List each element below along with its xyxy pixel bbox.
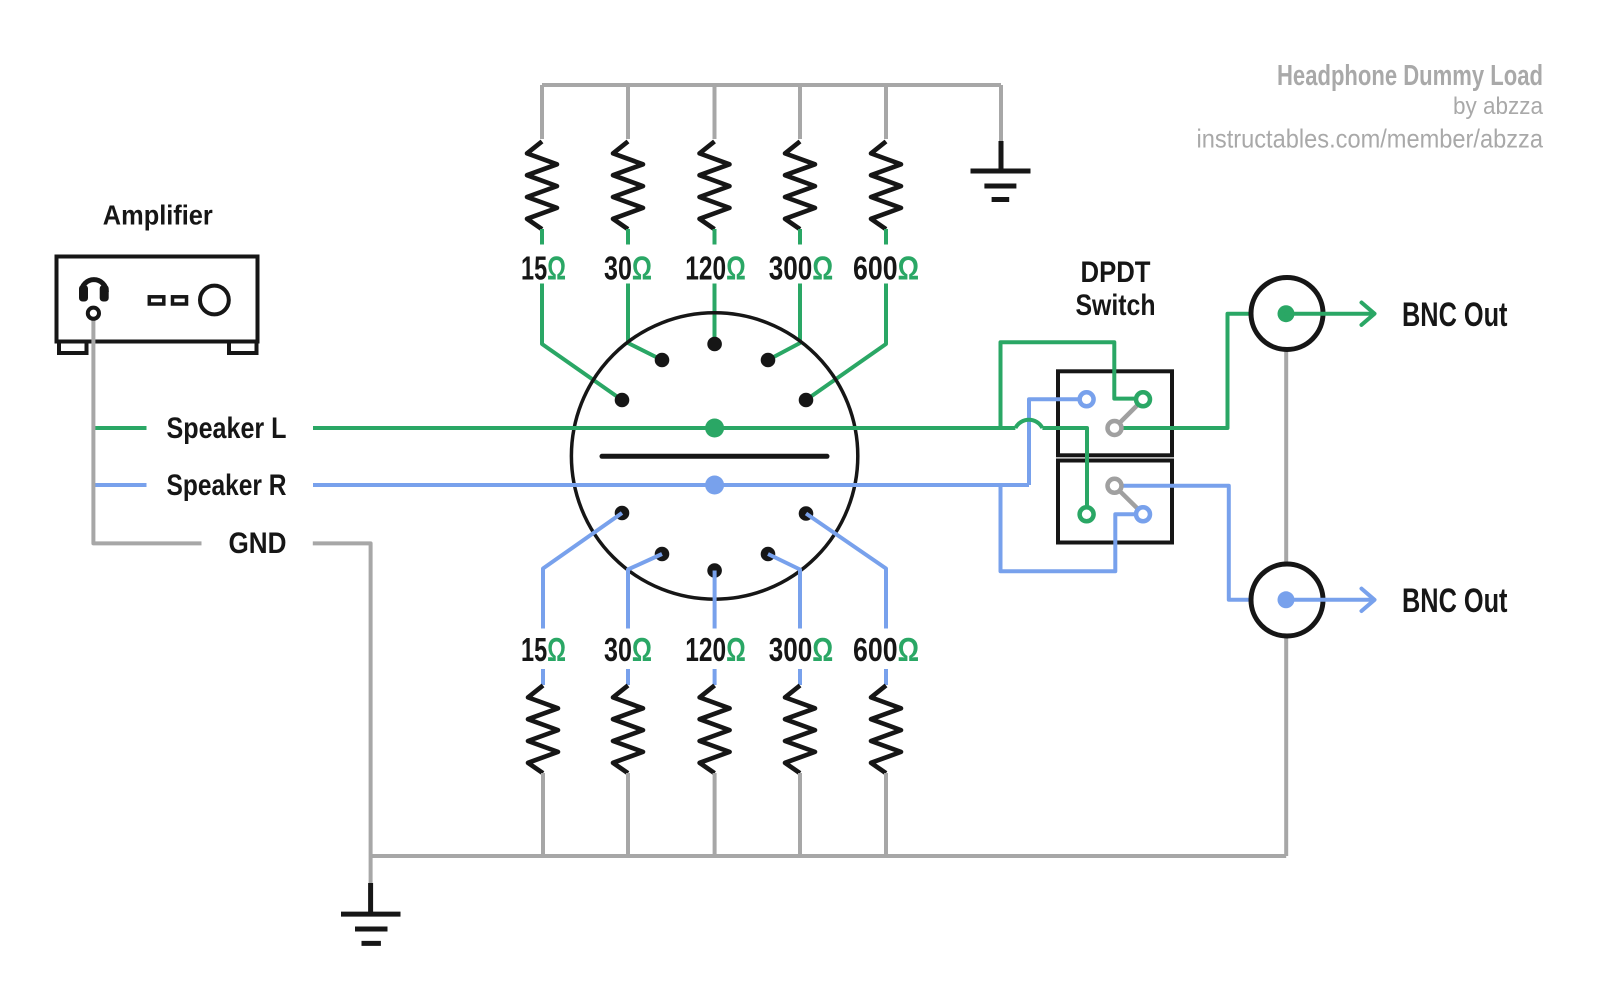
wire speaker R blue main (95, 399, 1136, 571)
amplifier foot left (59, 342, 87, 354)
resistor R2 30ohm top (613, 141, 643, 229)
svg-text:Amplifier: Amplifier (103, 200, 213, 231)
rotary switch pins bottom (615, 506, 814, 578)
DPDT lever top (1115, 403, 1141, 429)
resistor R4 300ohm top (785, 141, 815, 229)
svg-text:BNC Out: BNC Out (1402, 582, 1508, 620)
wire green leads top resistors (542, 229, 886, 400)
wire blue output to BNC bottom (1122, 486, 1251, 600)
amplifier vent rects (149, 297, 164, 304)
svg-text:Speaker R: Speaker R (167, 469, 287, 502)
svg-text:120Ω: 120Ω (685, 250, 746, 287)
amplifier headphone icon (79, 280, 109, 319)
svg-text:Headphone Dummy Load: Headphone Dummy Load (1277, 60, 1543, 92)
rotary switch body (571, 313, 857, 599)
DPDT switch box top (1058, 371, 1172, 455)
svg-text:120Ω: 120Ω (685, 631, 746, 668)
resistor R10 600ohm bottom (871, 685, 901, 773)
svg-text:300Ω: 300Ω (769, 250, 834, 287)
amplifier box (57, 257, 258, 342)
svg-text:30Ω: 30Ω (604, 631, 652, 668)
resistor R3 120ohm top (700, 141, 730, 229)
wire gray bottom bus (371, 773, 1287, 884)
svg-text:Speaker L: Speaker L (167, 412, 287, 445)
rotary switch pins top (615, 337, 814, 408)
resistor R7 30ohm bottom (613, 685, 643, 773)
wire top bus (542, 85, 1001, 142)
svg-text:300Ω: 300Ω (769, 631, 834, 668)
wire GND gray from amplifier (93, 319, 370, 857)
svg-text:15Ω: 15Ω (521, 250, 566, 287)
DPDT contacts top half (1080, 392, 1094, 406)
svg-text:Switch: Switch (1076, 289, 1156, 322)
DPDT contacts bottom half (1080, 507, 1094, 521)
arrow green BNC top (1286, 303, 1375, 325)
ground top (971, 141, 1031, 200)
svg-text:GND: GND (229, 527, 287, 560)
resistor R9 300ohm bottom (785, 685, 815, 773)
wire green output to BNC top (1122, 314, 1251, 428)
svg-text:DPDT: DPDT (1081, 256, 1151, 289)
arrow blue BNC bottom (1286, 589, 1375, 611)
svg-text:BNC Out: BNC Out (1402, 296, 1508, 334)
wire blue leads bottom resistors (543, 513, 886, 685)
wire gray BNC shield link (1284, 350, 1288, 857)
svg-text:15Ω: 15Ω (521, 631, 566, 668)
amplifier foot right (229, 342, 257, 354)
rotary switch common L dot (705, 419, 724, 438)
resistor R8 120ohm bottom (700, 685, 730, 773)
DPDT switch box bottom (1058, 461, 1172, 543)
resistor R1 15ohm top (527, 141, 557, 229)
title block (1197, 60, 1544, 154)
ground bottom (341, 883, 401, 943)
BNC connector bottom (1251, 564, 1323, 636)
rotary switch common R dot (705, 476, 724, 495)
amplifier knob (200, 286, 229, 315)
resistor R5 600ohm top (871, 141, 901, 229)
BNC connector top (1251, 278, 1323, 350)
svg-text:600Ω: 600Ω (853, 631, 919, 668)
svg-text:by abzza: by abzza (1453, 93, 1544, 120)
svg-text:600Ω: 600Ω (853, 250, 919, 287)
DPDT lever bottom (1115, 486, 1141, 511)
rotary switch wiper bar (602, 454, 827, 459)
wire speaker L green main (95, 342, 1136, 507)
resistor R6 15ohm bottom (528, 685, 558, 773)
svg-text:instructables.com/member/abzza: instructables.com/member/abzza (1197, 124, 1544, 154)
svg-text:30Ω: 30Ω (604, 250, 652, 287)
